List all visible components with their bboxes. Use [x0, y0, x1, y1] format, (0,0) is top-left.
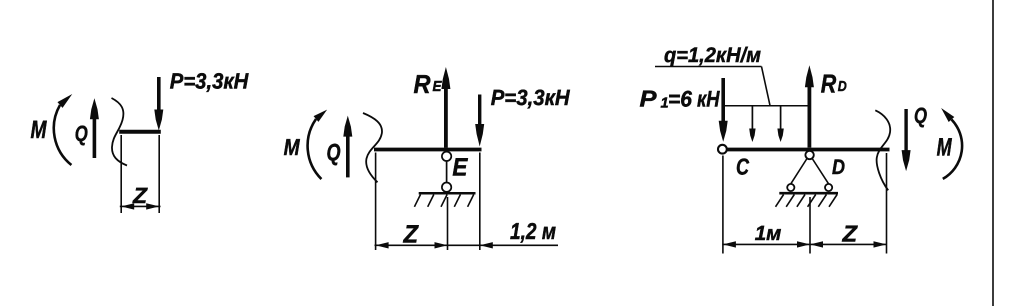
moment M arc (right diagram) — [938, 105, 962, 178]
extension line left (left diagram) — [120, 135, 122, 213]
svg-text:R: R — [821, 69, 837, 99]
ground line (right diagram) — [779, 192, 838, 195]
svg-text:P=3,3кН: P=3,3кН — [491, 85, 571, 110]
svg-text:P: P — [640, 85, 658, 111]
leader diagonal to load line — [762, 67, 771, 106]
extension line right (right diagram) — [886, 153, 888, 254]
ground hatching (middle diagram) — [414, 195, 473, 207]
hinge circle C at left beam end — [718, 145, 727, 154]
svg-text:P=3,3кН: P=3,3кН — [170, 68, 250, 93]
svg-text:E: E — [433, 79, 443, 95]
moment M arc (left diagram) — [54, 91, 75, 165]
support E: link bar — [446, 161, 448, 183]
svg-text:M: M — [31, 116, 48, 144]
force P arrow down (left diagram) — [154, 77, 163, 131]
ground line (middle diagram) — [419, 192, 476, 195]
extension line left (right diagram) — [722, 156, 724, 254]
shear force Q arrow up (left diagram) — [90, 98, 99, 158]
svg-text:1,2 м: 1,2 м — [510, 218, 556, 244]
dimension line Z (left diagram) — [120, 203, 161, 209]
svg-text:Q: Q — [75, 121, 88, 146]
svg-text:E: E — [452, 154, 468, 182]
extension line mid (right diagram) — [809, 197, 811, 254]
support D: left leg — [791, 159, 807, 184]
shear force Q arrow down (right diagram) — [902, 109, 911, 171]
svg-text:кН: кН — [697, 86, 720, 111]
svg-text:D: D — [838, 79, 847, 95]
extension line left (middle diagram) — [375, 153, 377, 251]
beam segment (middle diagram) — [374, 148, 482, 152]
svg-text:Q: Q — [327, 139, 341, 166]
svg-text:Z: Z — [132, 183, 149, 208]
beam segment (left diagram) — [119, 130, 161, 134]
reaction R_E arrow up (middle diagram) — [441, 67, 450, 148]
force P arrow down (middle diagram) — [475, 95, 484, 147]
svg-text:=6: =6 — [668, 86, 692, 111]
svg-text:Z: Z — [403, 221, 420, 249]
dimension line 1m and Z (right diagram) — [722, 241, 887, 247]
beam segment (right diagram) — [728, 148, 890, 152]
svg-text:C: C — [736, 153, 749, 179]
moment M arc (middle diagram) — [308, 107, 330, 179]
support D: left roller circle — [787, 184, 794, 191]
svg-text:1м: 1м — [755, 222, 782, 245]
extension line right (left diagram) — [158, 135, 160, 213]
dimension line Z and 1,2m (middle diagram) — [375, 242, 559, 248]
break (wavy cut) line (right diagram) — [875, 110, 890, 190]
svg-text:R: R — [414, 69, 431, 99]
svg-text:D: D — [832, 156, 845, 179]
svg-text:M: M — [937, 134, 953, 162]
force P1 arrow down (right diagram) — [719, 78, 728, 142]
support D: pin circle under beam — [805, 151, 813, 159]
break (wavy cut) line (left diagram) — [112, 98, 128, 166]
support E: lower hinge circle — [442, 183, 451, 192]
svg-text:M: M — [284, 134, 301, 160]
distributed load arrow 1 — [749, 106, 780, 142]
support E: upper hinge circle — [442, 152, 451, 161]
reaction R_D arrow up (right diagram) — [805, 65, 814, 147]
support D: right roller circle — [825, 184, 832, 191]
extension line right (middle diagram) — [479, 153, 481, 251]
table border line — [992, 0, 994, 306]
shear force Q arrow up (middle diagram) — [343, 116, 352, 178]
distributed load arrow 2 — [777, 106, 783, 142]
svg-text:q=1,2кН/м: q=1,2кН/м — [664, 44, 761, 67]
distributed load q top line — [723, 105, 809, 107]
leader underline for q label — [655, 66, 762, 68]
support D: right leg — [812, 159, 828, 184]
break (wavy cut) line (middle diagram) — [363, 113, 382, 182]
svg-text:Q: Q — [914, 103, 927, 128]
svg-text:Z: Z — [841, 221, 857, 247]
extension line mid (middle diagram) — [447, 197, 449, 250]
ground hatching (right diagram) — [776, 195, 838, 207]
